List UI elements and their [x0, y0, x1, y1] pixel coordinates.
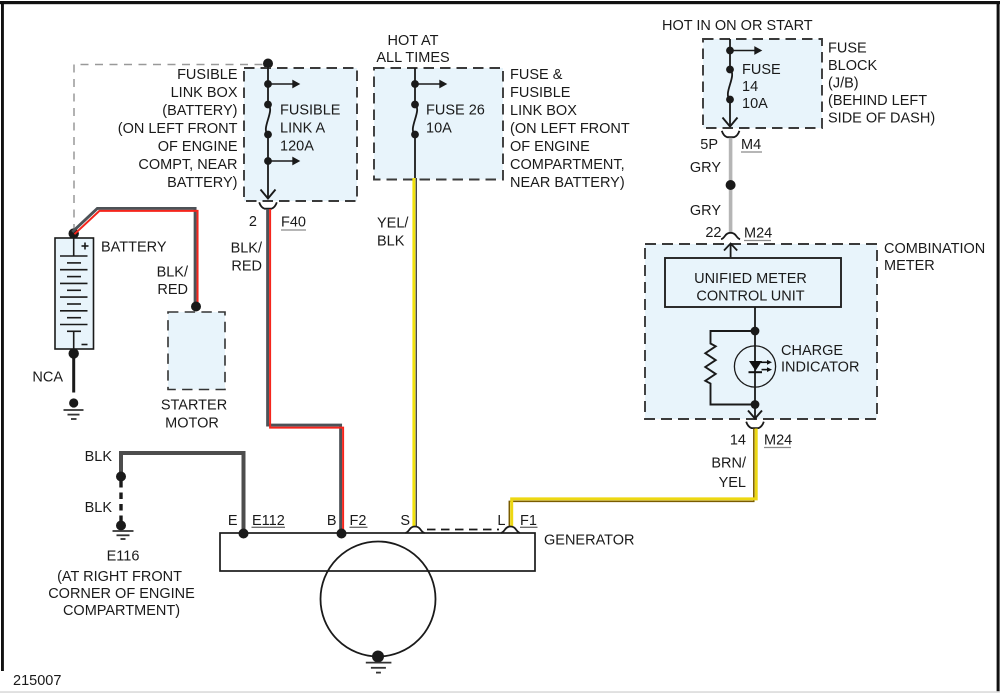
svg-text:YEL: YEL	[719, 475, 746, 491]
connector M24 pin 14	[746, 422, 764, 428]
terminal B	[337, 529, 347, 539]
svg-text:NCA: NCA	[32, 370, 63, 386]
unified meter control unit box U1	[665, 258, 841, 307]
resistor R branch	[705, 331, 755, 405]
svg-text:COMPT, NEAR: COMPT, NEAR	[138, 157, 237, 173]
svg-text:BLOCK: BLOCK	[828, 58, 877, 74]
svg-text:BLK: BLK	[85, 449, 113, 465]
battery	[69, 228, 79, 238]
starter motor box	[168, 312, 225, 390]
svg-text:MOTOR: MOTOR	[165, 416, 219, 432]
svg-text:FUSE 26: FUSE 26	[426, 103, 485, 119]
svg-text:(ON LEFT FRONT: (ON LEFT FRONT	[510, 121, 630, 137]
svg-text:120A: 120A	[280, 139, 314, 155]
svg-text:22: 22	[705, 225, 721, 241]
svg-text:ALL TIMES: ALL TIMES	[376, 50, 449, 66]
label fusible link box	[118, 67, 238, 191]
outer frame right	[997, 1, 1000, 692]
node bottom of indicator	[751, 400, 760, 409]
svg-text:14: 14	[730, 433, 746, 449]
svg-text:2: 2	[249, 214, 257, 230]
fuse 26 box	[374, 68, 503, 180]
svg-text:FUSE: FUSE	[828, 41, 867, 57]
fuse 14 element	[726, 66, 734, 74]
svg-text:(BEHIND LEFT: (BEHIND LEFT	[828, 93, 927, 109]
svg-text:COMBINATION: COMBINATION	[884, 241, 985, 257]
svg-text:LINK BOX: LINK BOX	[510, 103, 577, 119]
feed arrow fuse26	[411, 80, 419, 88]
svg-text:RED: RED	[231, 259, 262, 275]
wire from UMCU down	[754, 307, 756, 405]
svg-text:BLK/: BLK/	[157, 265, 189, 281]
terminal L connector	[501, 527, 520, 533]
svg-text:GRY: GRY	[690, 160, 721, 176]
feed arrow top	[264, 80, 272, 88]
battery minus	[82, 344, 88, 346]
fusible link box (blue dashed)	[244, 68, 357, 201]
svg-text:FUSIBLE: FUSIBLE	[177, 67, 238, 83]
fuse 26 element	[411, 101, 419, 109]
svg-text:METER: METER	[884, 258, 935, 274]
battery plus	[82, 245, 89, 247]
fuse block J/B box	[703, 39, 822, 128]
svg-text:CHARGE: CHARGE	[781, 343, 843, 359]
starter node dot	[191, 302, 201, 312]
down arrow head	[261, 190, 276, 199]
svg-text:SIDE OF DASH): SIDE OF DASH)	[828, 111, 935, 127]
wire BLK/RED from F40 to generator B	[268, 209, 341, 533]
junction dot gray wire	[726, 180, 736, 190]
svg-text:BLK/: BLK/	[231, 241, 263, 257]
combination meter box	[645, 244, 877, 419]
feed arrow fuse14	[726, 47, 734, 55]
wire BLK dashed	[119, 481, 122, 521]
connector F40 pin 2	[259, 202, 277, 208]
svg-text:E: E	[228, 513, 238, 529]
ground generator	[372, 651, 384, 663]
svg-text:F40: F40	[281, 215, 306, 231]
LED arrows	[761, 361, 768, 363]
bottom gray rule	[0, 691, 1000, 693]
wire BRN/YEL to generator L	[509, 429, 754, 528]
svg-text:NEAR BATTERY): NEAR BATTERY)	[510, 175, 625, 191]
svg-text:CONTROL UNIT: CONTROL UNIT	[696, 289, 804, 305]
svg-text:BRN/: BRN/	[711, 456, 747, 472]
node A junction dot at fusible link feed	[263, 59, 273, 69]
svg-text:FUSE &: FUSE &	[510, 67, 563, 83]
svg-text:FUSE: FUSE	[742, 62, 781, 78]
svg-text:BATTERY): BATTERY)	[167, 175, 237, 191]
node dot	[116, 472, 126, 482]
connector M4 pin 5P	[722, 131, 740, 137]
dashed connector line S to L	[427, 529, 499, 531]
svg-text:YEL/: YEL/	[377, 216, 409, 232]
svg-text:(J/B): (J/B)	[828, 76, 859, 92]
svg-text:STARTER: STARTER	[161, 398, 227, 414]
wire NCA	[72, 354, 75, 393]
terminal S connector	[406, 527, 425, 533]
svg-text:M4: M4	[741, 137, 761, 153]
label BLK/RED starter	[157, 265, 189, 299]
outer frame left	[1, 1, 4, 671]
svg-text:S: S	[400, 513, 410, 529]
svg-text:(ON LEFT FRONT: (ON LEFT FRONT	[118, 121, 238, 137]
svg-text:L: L	[497, 513, 505, 529]
svg-text:GENERATOR: GENERATOR	[544, 533, 635, 549]
battery bottom node	[69, 348, 79, 358]
svg-text:(AT RIGHT FRONT: (AT RIGHT FRONT	[57, 569, 182, 585]
svg-text:215007: 215007	[13, 673, 61, 689]
wire BLK/RED battery to starter motor	[72, 208, 195, 305]
svg-text:FUSIBLE: FUSIBLE	[510, 85, 571, 101]
LED charge indicator circle	[734, 346, 775, 387]
wire BLK generator E to ground E116	[121, 453, 244, 533]
wire GRY	[729, 138, 733, 233]
LED cathode bar	[749, 371, 763, 373]
svg-text:10A: 10A	[742, 96, 768, 112]
svg-text:FUSIBLE: FUSIBLE	[280, 103, 341, 119]
svg-text:E116: E116	[107, 549, 140, 565]
svg-text:HOT AT: HOT AT	[387, 33, 438, 49]
entry arrow up	[730, 245, 732, 259]
svg-text:INDICATOR: INDICATOR	[781, 360, 859, 376]
svg-text:14: 14	[742, 79, 758, 95]
generator box	[220, 533, 535, 571]
svg-text:OF ENGINE: OF ENGINE	[510, 139, 590, 155]
svg-text:OF ENGINE: OF ENGINE	[158, 139, 238, 155]
label BLK/RED	[231, 241, 263, 275]
node top of indicator	[751, 327, 760, 336]
svg-text:HOT IN ON OR START: HOT IN ON OR START	[662, 18, 813, 34]
svg-text:B: B	[327, 513, 337, 529]
ground battery	[69, 398, 78, 407]
wire: gray dashed feed from battery + to fusible link box	[74, 65, 263, 233]
svg-text:RED: RED	[157, 282, 188, 298]
svg-text:LINK A: LINK A	[280, 121, 325, 137]
feed arrow bottom	[264, 157, 272, 165]
svg-text:M24: M24	[744, 226, 772, 242]
battery plates	[60, 256, 88, 331]
terminal E	[239, 529, 249, 539]
generator circle	[321, 542, 436, 657]
svg-text:COMPARTMENT,: COMPARTMENT,	[510, 157, 625, 173]
svg-text:10A: 10A	[426, 121, 452, 137]
fusible link A element	[264, 101, 272, 109]
svg-text:M24: M24	[764, 433, 792, 449]
svg-text:BLK: BLK	[85, 500, 113, 516]
svg-text:UNIFIED METER: UNIFIED METER	[694, 271, 807, 287]
svg-text:(BATTERY): (BATTERY)	[162, 103, 237, 119]
svg-text:LINK BOX: LINK BOX	[171, 85, 238, 101]
svg-text:BLK: BLK	[377, 234, 405, 250]
label BRN/YEL	[711, 456, 747, 492]
svg-text:BATTERY: BATTERY	[101, 240, 167, 256]
wire into fusible link	[267, 64, 269, 105]
outer frame top	[0, 1, 1000, 4]
svg-text:5P: 5P	[700, 137, 718, 153]
wire YEL/BLK fuse26 to generator S	[412, 178, 415, 527]
LED triangle	[749, 361, 762, 371]
ground E116	[116, 521, 126, 531]
svg-text:COMPARTMENT): COMPARTMENT)	[63, 603, 180, 619]
exit arrow down	[754, 405, 756, 418]
svg-text:GRY: GRY	[690, 203, 721, 219]
svg-text:CORNER OF ENGINE: CORNER OF ENGINE	[48, 586, 195, 602]
